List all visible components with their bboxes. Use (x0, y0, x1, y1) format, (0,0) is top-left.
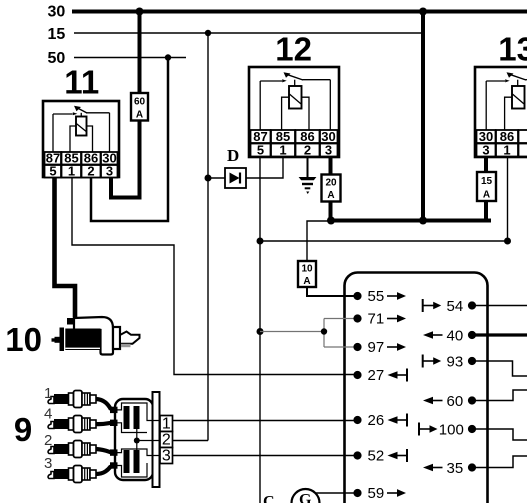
svg-text:60: 60 (447, 393, 464, 410)
svg-text:59: 59 (368, 485, 385, 502)
svg-text:27: 27 (368, 367, 385, 384)
svg-text:2: 2 (87, 164, 94, 179)
svg-text:A: A (327, 190, 334, 201)
svg-text:5: 5 (49, 164, 56, 179)
svg-text:1: 1 (44, 385, 52, 402)
svg-text:1: 1 (503, 143, 510, 158)
svg-text:52: 52 (368, 448, 385, 465)
svg-text:9: 9 (14, 411, 32, 448)
svg-text:A: A (483, 190, 490, 201)
svg-text:71: 71 (368, 311, 385, 328)
svg-text:3: 3 (325, 143, 332, 158)
svg-text:12: 12 (275, 31, 312, 68)
svg-text:5: 5 (257, 143, 264, 158)
svg-text:10: 10 (5, 321, 42, 358)
svg-text:1: 1 (279, 143, 286, 158)
svg-text:1: 1 (68, 164, 75, 179)
svg-text:4: 4 (44, 406, 52, 423)
svg-text:30: 30 (48, 4, 66, 21)
svg-text:C: C (263, 494, 275, 503)
svg-text:10: 10 (301, 264, 313, 275)
svg-text:93: 93 (447, 353, 464, 370)
svg-text:11: 11 (64, 64, 99, 101)
svg-text:2: 2 (162, 432, 171, 449)
svg-text:3: 3 (482, 143, 489, 158)
svg-text:100: 100 (439, 421, 464, 438)
svg-text:3: 3 (162, 448, 171, 465)
svg-text:40: 40 (447, 327, 464, 344)
svg-text:2: 2 (304, 143, 311, 158)
svg-text:3: 3 (106, 164, 113, 179)
svg-text:15: 15 (48, 26, 66, 43)
svg-text:35: 35 (447, 460, 464, 477)
svg-text:55: 55 (368, 288, 385, 305)
svg-text:20: 20 (325, 178, 337, 189)
svg-text:60: 60 (134, 97, 146, 108)
svg-text:G: G (299, 492, 312, 503)
svg-text:97: 97 (368, 339, 385, 356)
svg-text:54: 54 (447, 298, 464, 315)
svg-text:1: 1 (162, 416, 171, 433)
svg-text:D: D (227, 146, 239, 165)
svg-text:13: 13 (498, 31, 527, 68)
svg-text:A: A (303, 276, 310, 287)
svg-text:50: 50 (48, 50, 66, 67)
svg-text:15: 15 (481, 176, 493, 187)
svg-text:2: 2 (44, 432, 52, 449)
svg-text:A: A (136, 110, 143, 121)
svg-text:3: 3 (44, 455, 52, 472)
svg-text:26: 26 (368, 412, 385, 429)
